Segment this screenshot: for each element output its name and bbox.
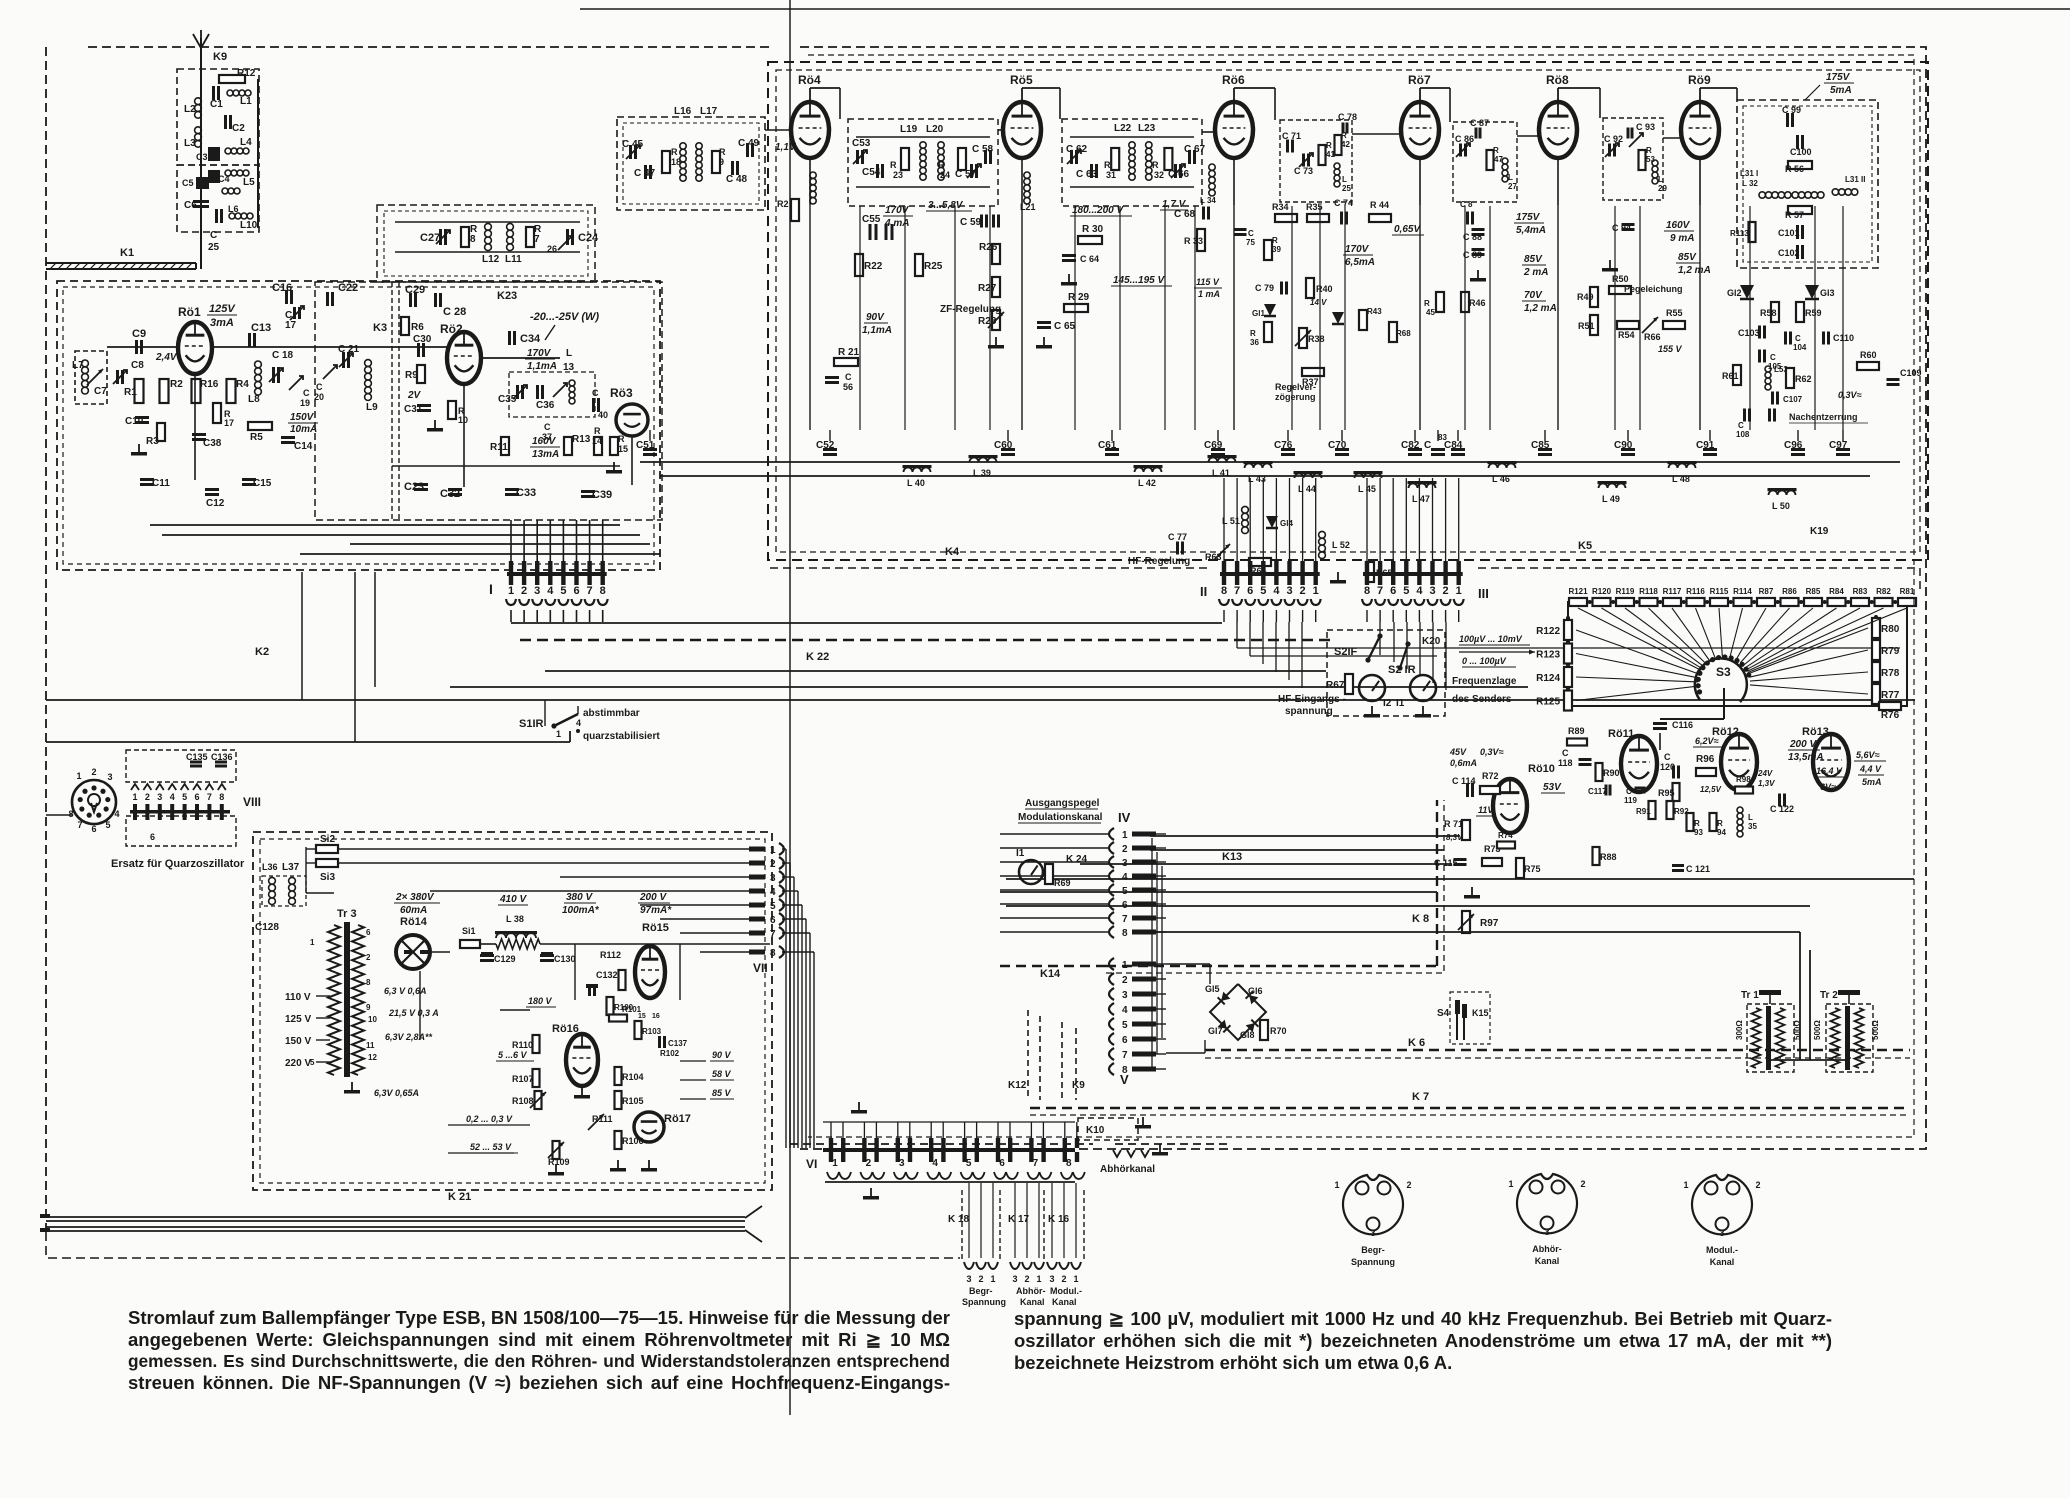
svg-text:R122: R122 xyxy=(1536,626,1560,637)
svg-text:R: R xyxy=(1493,146,1499,155)
svg-text:R119: R119 xyxy=(1616,587,1635,596)
svg-text:L2: L2 xyxy=(184,104,196,115)
svg-text:C102: C102 xyxy=(1778,248,1800,258)
svg-text:2V: 2V xyxy=(407,390,422,401)
svg-text:125 V: 125 V xyxy=(285,1014,311,1025)
svg-text:C 99: C 99 xyxy=(1782,105,1801,115)
svg-text:L8: L8 xyxy=(248,394,260,405)
svg-text:220 V: 220 V xyxy=(285,1058,311,1069)
svg-text:Gl2: Gl2 xyxy=(1727,288,1742,298)
svg-text:2: 2 xyxy=(1122,975,1128,986)
svg-text:3: 3 xyxy=(1122,990,1128,1001)
svg-text:6: 6 xyxy=(999,1158,1005,1169)
svg-text:R111: R111 xyxy=(592,1114,613,1124)
svg-text:C 57: C 57 xyxy=(955,169,977,180)
svg-text:Modulationskanal: Modulationskanal xyxy=(1018,812,1103,823)
svg-text:8: 8 xyxy=(1066,1158,1072,1169)
svg-text:C 89: C 89 xyxy=(1463,250,1482,260)
svg-text:C101: C101 xyxy=(1778,228,1800,238)
svg-text:C16: C16 xyxy=(272,282,292,294)
svg-text:36: 36 xyxy=(1250,338,1259,347)
svg-text:8: 8 xyxy=(366,978,371,987)
svg-text:R9: R9 xyxy=(405,370,418,381)
svg-text:1,2 mA: 1,2 mA xyxy=(1678,265,1711,276)
svg-text:4: 4 xyxy=(547,585,554,597)
svg-text:Modul.-: Modul.- xyxy=(1050,1286,1082,1296)
svg-text:R22: R22 xyxy=(864,261,883,272)
svg-text:12,5V: 12,5V xyxy=(1700,785,1722,794)
svg-text:R78: R78 xyxy=(1881,668,1900,679)
svg-text:7: 7 xyxy=(1234,585,1240,597)
svg-text:7: 7 xyxy=(1377,585,1383,597)
svg-text:III: III xyxy=(1478,586,1489,601)
svg-text:4: 4 xyxy=(114,809,119,819)
svg-text:R11: R11 xyxy=(490,442,508,453)
svg-text:C55: C55 xyxy=(862,214,881,225)
svg-text:4: 4 xyxy=(1122,872,1128,883)
svg-text:R 44: R 44 xyxy=(1370,200,1389,210)
svg-text:Rö6: Rö6 xyxy=(1222,73,1245,87)
svg-text:7: 7 xyxy=(1033,1158,1039,1169)
svg-text:24: 24 xyxy=(940,170,950,180)
svg-text:100mA*: 100mA* xyxy=(562,905,600,916)
svg-text:abstimmbar: abstimmbar xyxy=(583,708,640,719)
svg-text:C6: C6 xyxy=(184,200,197,211)
svg-text:6,3V 2,8A**: 6,3V 2,8A** xyxy=(385,1032,433,1042)
svg-text:K12: K12 xyxy=(1008,1080,1027,1091)
svg-text:C76: C76 xyxy=(1274,440,1293,451)
svg-text:32: 32 xyxy=(1154,170,1164,180)
svg-text:19: 19 xyxy=(300,398,310,408)
svg-text:0,6mA: 0,6mA xyxy=(1450,758,1477,768)
svg-text:40: 40 xyxy=(598,410,608,420)
svg-text:C128: C128 xyxy=(255,922,279,933)
svg-text:K1: K1 xyxy=(120,247,134,259)
svg-text:Spannung: Spannung xyxy=(962,1297,1006,1307)
svg-text:C24: C24 xyxy=(578,232,599,244)
svg-text:C 65: C 65 xyxy=(1054,321,1076,332)
svg-text:L17: L17 xyxy=(700,106,718,117)
svg-text:5: 5 xyxy=(770,901,776,912)
svg-text:170V: 170V xyxy=(885,205,910,216)
svg-text:Rö3: Rö3 xyxy=(610,386,633,400)
svg-text:I1: I1 xyxy=(1396,698,1405,709)
svg-text:75: 75 xyxy=(1246,238,1255,247)
svg-text:K 17: K 17 xyxy=(1008,1214,1030,1225)
svg-text:3: 3 xyxy=(1370,1228,1375,1238)
svg-text:8: 8 xyxy=(1122,1065,1128,1076)
svg-text:C: C xyxy=(1562,748,1569,758)
svg-text:C34: C34 xyxy=(520,333,541,345)
svg-text:4,4 V: 4,4 V xyxy=(1859,764,1882,774)
svg-text:24V: 24V xyxy=(1757,769,1773,778)
svg-text:R16: R16 xyxy=(200,379,219,390)
svg-text:L 38: L 38 xyxy=(506,914,524,924)
svg-text:Frequenzlage: Frequenzlage xyxy=(1452,676,1517,687)
svg-text:5mA: 5mA xyxy=(1862,777,1882,787)
svg-text:R: R xyxy=(618,434,625,444)
svg-text:2: 2 xyxy=(91,767,96,777)
svg-text:R: R xyxy=(1694,819,1700,828)
svg-text:2: 2 xyxy=(366,953,371,962)
svg-text:L1: L1 xyxy=(240,96,252,107)
svg-text:R108: R108 xyxy=(512,1096,534,1106)
svg-text:C 68: C 68 xyxy=(1174,209,1196,220)
svg-text:C38: C38 xyxy=(203,438,222,449)
svg-text:2: 2 xyxy=(521,585,527,597)
svg-text:Modul.-: Modul.- xyxy=(1706,1245,1738,1255)
svg-text:3: 3 xyxy=(1544,1227,1549,1237)
svg-text:5: 5 xyxy=(105,820,110,830)
svg-text:145...195 V: 145...195 V xyxy=(1113,275,1165,286)
svg-text:VIII: VIII xyxy=(243,795,261,809)
svg-text:410 V: 410 V xyxy=(499,894,527,905)
svg-text:R26: R26 xyxy=(979,242,998,253)
svg-text:10: 10 xyxy=(458,415,468,425)
svg-text:IV: IV xyxy=(1118,810,1131,825)
svg-text:160V: 160V xyxy=(532,436,557,447)
svg-text:R115: R115 xyxy=(1710,587,1729,596)
svg-text:R83: R83 xyxy=(1853,587,1868,596)
svg-text:R 21: R 21 xyxy=(838,347,860,358)
svg-text:56: 56 xyxy=(843,382,853,392)
svg-text:11V: 11V xyxy=(1478,805,1494,815)
svg-text:R70: R70 xyxy=(1270,1026,1287,1036)
svg-text:2: 2 xyxy=(978,1274,983,1284)
svg-text:L31 II: L31 II xyxy=(1845,175,1865,184)
svg-text:Pegeleichung: Pegeleichung xyxy=(1624,284,1683,294)
svg-text:L: L xyxy=(1342,175,1347,184)
svg-text:2 mA: 2 mA xyxy=(1523,267,1548,278)
svg-text:spannung: spannung xyxy=(1285,706,1333,717)
svg-text:5: 5 xyxy=(182,792,187,802)
svg-text:C 8: C 8 xyxy=(1460,200,1473,209)
svg-text:R: R xyxy=(1646,146,1652,155)
svg-text:0,2 ... 0,3 V: 0,2 ... 0,3 V xyxy=(466,1114,513,1124)
svg-text:1: 1 xyxy=(1122,960,1128,971)
svg-text:1: 1 xyxy=(770,845,776,856)
svg-text:C13: C13 xyxy=(251,322,271,334)
svg-text:Kanal: Kanal xyxy=(1020,1297,1045,1307)
svg-text:R114: R114 xyxy=(1733,587,1752,596)
svg-text:13,5mA: 13,5mA xyxy=(1788,752,1824,763)
svg-text:1: 1 xyxy=(1334,1180,1339,1190)
svg-text:L4: L4 xyxy=(240,137,252,148)
svg-text:C7: C7 xyxy=(94,386,107,397)
svg-text:90V: 90V xyxy=(866,312,885,323)
svg-text:25: 25 xyxy=(208,242,220,253)
svg-text:C: C xyxy=(1770,353,1776,362)
svg-text:R55: R55 xyxy=(1666,308,1683,318)
svg-text:C: C xyxy=(303,388,310,398)
svg-text:100µV ... 10mV: 100µV ... 10mV xyxy=(1459,634,1523,644)
svg-text:4: 4 xyxy=(1416,585,1423,597)
svg-text:C22: C22 xyxy=(338,282,358,294)
svg-text:15: 15 xyxy=(638,1013,646,1020)
svg-text:3: 3 xyxy=(1122,858,1128,869)
svg-text:2: 2 xyxy=(1580,1179,1585,1189)
svg-text:7: 7 xyxy=(77,820,82,830)
svg-text:Si1: Si1 xyxy=(462,926,476,936)
svg-text:R62: R62 xyxy=(1795,374,1812,384)
svg-text:200 V: 200 V xyxy=(639,892,667,903)
svg-text:ZF-Regelung: ZF-Regelung xyxy=(940,304,1001,315)
svg-text:1,1V: 1,1V xyxy=(775,142,797,153)
svg-text:1: 1 xyxy=(1313,585,1319,597)
svg-text:1 mA: 1 mA xyxy=(1198,289,1220,299)
svg-text:C5: C5 xyxy=(182,178,194,188)
svg-text:8: 8 xyxy=(470,234,476,245)
svg-text:R74: R74 xyxy=(1498,831,1513,840)
svg-text:C132: C132 xyxy=(596,970,618,980)
svg-text:R28: R28 xyxy=(978,316,997,327)
svg-text:3: 3 xyxy=(899,1158,905,1169)
svg-text:27: 27 xyxy=(1508,182,1517,191)
svg-text:R3: R3 xyxy=(146,436,159,447)
svg-text:Gl5: Gl5 xyxy=(1205,984,1220,994)
svg-text:C: C xyxy=(845,372,852,382)
svg-text:3: 3 xyxy=(107,772,112,782)
svg-text:Ersatz für Quarzoszillator: Ersatz für Quarzoszillator xyxy=(111,858,245,870)
svg-text:C 48: C 48 xyxy=(726,174,748,185)
svg-text:1: 1 xyxy=(76,771,81,781)
svg-text:L5: L5 xyxy=(243,177,255,188)
svg-text:R90: R90 xyxy=(1603,768,1620,778)
svg-text:R 71: R 71 xyxy=(1444,819,1463,829)
svg-text:5 ...6 V: 5 ...6 V xyxy=(498,1050,528,1060)
svg-text:C2: C2 xyxy=(232,123,245,134)
svg-text:R103: R103 xyxy=(642,1027,662,1036)
svg-text:Rö7: Rö7 xyxy=(1408,73,1431,87)
svg-text:C107: C107 xyxy=(1783,395,1803,404)
svg-text:0 ... 100µV: 0 ... 100µV xyxy=(1462,656,1507,666)
svg-text:L19: L19 xyxy=(900,124,918,135)
svg-text:L 41: L 41 xyxy=(1212,468,1230,478)
svg-text:8: 8 xyxy=(600,585,606,597)
svg-text:9 mA: 9 mA xyxy=(1670,233,1694,244)
svg-text:R51: R51 xyxy=(1578,321,1595,331)
svg-text:R77: R77 xyxy=(1881,690,1900,701)
svg-text:C: C xyxy=(1424,440,1431,451)
svg-text:C 115: C 115 xyxy=(1434,858,1458,868)
svg-text:R102: R102 xyxy=(660,1049,680,1058)
svg-text:Rö13: Rö13 xyxy=(1802,726,1829,738)
svg-text:0,65V: 0,65V xyxy=(1394,224,1421,235)
svg-text:1: 1 xyxy=(1122,830,1128,841)
svg-text:Abhör-: Abhör- xyxy=(1532,1244,1562,1254)
svg-text:K 8: K 8 xyxy=(1412,913,1429,925)
svg-text:6: 6 xyxy=(91,824,96,834)
svg-text:Rö11: Rö11 xyxy=(1608,728,1634,740)
svg-text:C53: C53 xyxy=(852,138,871,149)
svg-text:7: 7 xyxy=(1122,1050,1128,1061)
svg-text:R: R xyxy=(1424,299,1430,308)
svg-text:83: 83 xyxy=(1438,433,1447,442)
svg-text:R81: R81 xyxy=(1900,587,1915,596)
svg-text:R107: R107 xyxy=(512,1074,534,1084)
svg-text:3: 3 xyxy=(1286,585,1292,597)
svg-text:K10: K10 xyxy=(1086,1125,1105,1136)
svg-text:L31 I: L31 I xyxy=(1740,169,1758,178)
svg-text:85V: 85V xyxy=(1524,254,1543,265)
svg-text:8: 8 xyxy=(219,792,224,802)
svg-text:0,3V≈: 0,3V≈ xyxy=(1480,747,1504,757)
svg-text:L11: L11 xyxy=(505,254,522,265)
svg-text:C30: C30 xyxy=(413,334,432,345)
svg-text:C 92: C 92 xyxy=(1604,134,1623,144)
svg-text:Begr-: Begr- xyxy=(1361,1245,1385,1255)
svg-text:C52: C52 xyxy=(816,440,835,451)
svg-text:Rö1: Rö1 xyxy=(178,305,201,319)
svg-text:C 86: C 86 xyxy=(1455,134,1474,144)
svg-text:C61: C61 xyxy=(1098,440,1117,451)
svg-text:4: 4 xyxy=(1122,1005,1128,1016)
svg-text:des Senders: des Senders xyxy=(1452,694,1512,705)
svg-text:C32: C32 xyxy=(440,488,460,500)
svg-text:Si3: Si3 xyxy=(320,872,335,883)
svg-text:170V: 170V xyxy=(1345,244,1370,255)
svg-text:C36: C36 xyxy=(536,400,555,411)
svg-text:4: 4 xyxy=(170,792,175,802)
svg-text:94: 94 xyxy=(1717,828,1726,837)
svg-text:C 28: C 28 xyxy=(443,306,466,318)
svg-text:2: 2 xyxy=(1755,1180,1760,1190)
svg-text:R 56: R 56 xyxy=(1785,164,1804,174)
svg-text:5: 5 xyxy=(560,585,566,597)
svg-text:L: L xyxy=(1658,175,1663,184)
svg-text:VI: VI xyxy=(806,1157,817,1171)
svg-text:6,2V≈: 6,2V≈ xyxy=(1695,736,1719,746)
svg-text:K 7: K 7 xyxy=(1412,1091,1429,1103)
svg-text:2: 2 xyxy=(770,859,776,870)
svg-text:R2: R2 xyxy=(170,379,183,390)
svg-text:Rö16: Rö16 xyxy=(552,1023,579,1035)
svg-text:97mA*: 97mA* xyxy=(640,905,672,916)
svg-text:C 45: C 45 xyxy=(622,139,644,150)
svg-text:2: 2 xyxy=(866,1158,872,1169)
svg-text:C 49: C 49 xyxy=(738,138,760,149)
svg-text:R38: R38 xyxy=(1308,334,1325,344)
svg-text:6: 6 xyxy=(194,792,199,802)
svg-text:C 121: C 121 xyxy=(1686,864,1710,874)
svg-text:Rö9: Rö9 xyxy=(1688,73,1711,87)
svg-text:70V: 70V xyxy=(1524,290,1543,301)
svg-text:15: 15 xyxy=(618,444,628,454)
svg-text:zögerung: zögerung xyxy=(1275,392,1316,402)
svg-text:S3: S3 xyxy=(1716,665,1731,679)
svg-text:175V: 175V xyxy=(1826,72,1851,83)
svg-text:R67: R67 xyxy=(1326,680,1345,691)
svg-text:C: C xyxy=(316,382,323,392)
svg-text:R60: R60 xyxy=(1860,350,1877,360)
svg-text:L7: L7 xyxy=(72,360,84,371)
svg-text:3: 3 xyxy=(770,873,776,884)
svg-text:HF-Eingangs -: HF-Eingangs - xyxy=(1278,694,1346,705)
svg-text:R6: R6 xyxy=(411,322,424,333)
svg-text:R125: R125 xyxy=(1536,697,1560,708)
svg-text:Rö5: Rö5 xyxy=(1010,73,1033,87)
svg-text:R96: R96 xyxy=(1696,754,1715,765)
svg-text:K 18: K 18 xyxy=(948,1214,970,1225)
svg-text:2: 2 xyxy=(1122,844,1128,855)
svg-text:R: R xyxy=(671,147,678,157)
svg-text:R76: R76 xyxy=(1881,710,1900,721)
svg-text:R40: R40 xyxy=(1316,284,1333,294)
svg-text:5: 5 xyxy=(1260,585,1266,597)
svg-text:Gl4: Gl4 xyxy=(1280,519,1293,528)
svg-text:1: 1 xyxy=(1456,585,1462,597)
svg-text:C69: C69 xyxy=(1204,440,1223,451)
svg-text:42: 42 xyxy=(1341,140,1350,149)
svg-text:Ausgangspegel: Ausgangspegel xyxy=(1025,798,1100,809)
svg-text:R46: R46 xyxy=(1469,298,1486,308)
svg-text:17: 17 xyxy=(285,320,297,331)
svg-text:C 93: C 93 xyxy=(1636,122,1655,132)
svg-text:6V≈: 6V≈ xyxy=(1820,782,1836,792)
svg-text:180...200 V: 180...200 V xyxy=(1072,205,1124,216)
svg-text:Regelver-: Regelver- xyxy=(1275,382,1316,392)
svg-text:C 67: C 67 xyxy=(1184,144,1206,155)
svg-text:Tr 3: Tr 3 xyxy=(337,908,357,920)
svg-text:1: 1 xyxy=(1683,1180,1688,1190)
svg-text:R: R xyxy=(1326,141,1332,150)
svg-text:R109: R109 xyxy=(548,1157,570,1167)
svg-text:HF-Regelung: HF-Regelung xyxy=(1128,556,1190,567)
svg-text:C97: C97 xyxy=(1829,440,1848,451)
svg-text:R79: R79 xyxy=(1881,646,1900,657)
svg-text:C91: C91 xyxy=(1696,440,1715,451)
svg-text:R68: R68 xyxy=(1396,329,1411,338)
svg-text:C: C xyxy=(1738,421,1744,430)
svg-text:10: 10 xyxy=(368,1015,377,1024)
svg-text:180 V: 180 V xyxy=(528,996,553,1006)
svg-text:1: 1 xyxy=(310,938,315,947)
svg-text:R 57: R 57 xyxy=(1785,210,1804,220)
svg-text:5: 5 xyxy=(1403,585,1409,597)
svg-text:K23: K23 xyxy=(497,290,517,302)
svg-text:8: 8 xyxy=(770,948,776,959)
svg-text:9: 9 xyxy=(719,157,724,167)
svg-text:29: 29 xyxy=(1658,184,1667,193)
svg-text:R: R xyxy=(890,160,897,170)
svg-text:1: 1 xyxy=(990,1274,995,1284)
svg-text:K9: K9 xyxy=(213,51,227,63)
svg-text:R: R xyxy=(938,160,945,170)
svg-text:C: C xyxy=(592,388,599,398)
svg-text:C103: C103 xyxy=(1738,328,1760,338)
svg-text:C31: C31 xyxy=(404,404,423,415)
svg-text:5,4mA: 5,4mA xyxy=(1516,225,1546,236)
svg-text:R85: R85 xyxy=(1806,587,1821,596)
svg-text:C33: C33 xyxy=(516,487,536,499)
svg-text:52 ... 53 V: 52 ... 53 V xyxy=(470,1142,512,1152)
svg-text:K19: K19 xyxy=(1810,526,1829,537)
svg-text:7: 7 xyxy=(207,792,212,802)
svg-text:5: 5 xyxy=(310,1058,315,1067)
svg-text:1: 1 xyxy=(132,792,137,802)
svg-text:L 47: L 47 xyxy=(1412,494,1430,504)
svg-text:12: 12 xyxy=(368,1053,377,1062)
svg-text:3: 3 xyxy=(534,585,540,597)
svg-text:C 66: C 66 xyxy=(1168,169,1190,180)
svg-text:K 22: K 22 xyxy=(806,651,829,663)
svg-text:K 21: K 21 xyxy=(448,1191,471,1203)
svg-text:R: R xyxy=(594,426,601,436)
svg-text:R49: R49 xyxy=(1577,292,1594,302)
svg-text:3: 3 xyxy=(1429,585,1435,597)
svg-text:Rö2: Rö2 xyxy=(440,322,463,336)
svg-text:Rö17: Rö17 xyxy=(664,1113,691,1125)
